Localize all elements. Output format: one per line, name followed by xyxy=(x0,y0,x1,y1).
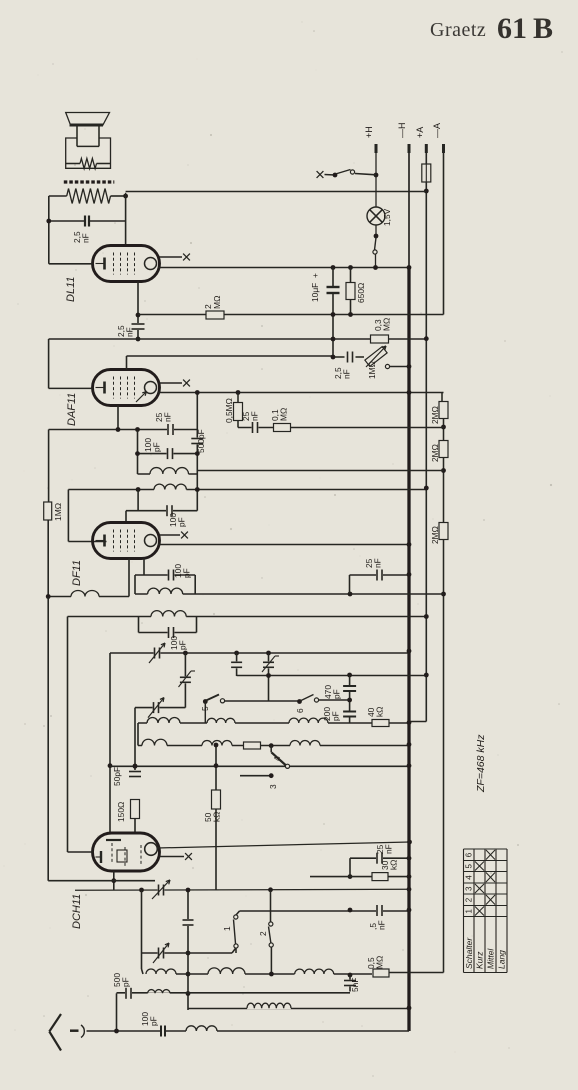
svg-text:DF11: DF11 xyxy=(71,560,83,586)
svg-text:5: 5 xyxy=(200,706,210,711)
svg-text:10μF: 10μF xyxy=(310,283,320,302)
svg-text:MΩ: MΩ xyxy=(375,956,385,969)
svg-text:pF: pF xyxy=(332,689,342,699)
svg-text:+A: +A xyxy=(415,127,425,138)
svg-text:2MΩ: 2MΩ xyxy=(430,444,440,462)
svg-text:Schalter: Schalter xyxy=(464,937,474,969)
svg-text:5: 5 xyxy=(465,864,474,869)
svg-text:Mittel: Mittel xyxy=(486,948,496,969)
svg-text:nF: nF xyxy=(377,920,387,930)
svg-text:6: 6 xyxy=(295,708,305,713)
svg-text:1MΩ: 1MΩ xyxy=(367,361,377,379)
svg-text:3: 3 xyxy=(465,886,474,891)
svg-text:3: 3 xyxy=(268,784,278,789)
svg-text:1MΩ: 1MΩ xyxy=(53,503,63,521)
svg-text:nF: nF xyxy=(384,844,394,854)
svg-text:2: 2 xyxy=(258,931,268,936)
svg-text:DAF11: DAF11 xyxy=(66,393,78,426)
svg-text:ZF=468 kHz: ZF=468 kHz xyxy=(475,734,487,793)
svg-text:nF: nF xyxy=(163,412,173,422)
svg-text:650Ω: 650Ω xyxy=(356,283,366,303)
svg-text:pF: pF xyxy=(182,568,192,578)
svg-text:Kurz: Kurz xyxy=(475,951,485,969)
svg-text:1: 1 xyxy=(222,926,232,931)
svg-text:—H: —H xyxy=(397,123,407,139)
svg-text:pF: pF xyxy=(178,640,188,650)
svg-text:2: 2 xyxy=(465,897,474,902)
svg-text:Graetz: Graetz xyxy=(430,19,486,41)
svg-text:2MΩ: 2MΩ xyxy=(430,406,440,424)
svg-text:2MΩ: 2MΩ xyxy=(430,526,440,544)
svg-text:4: 4 xyxy=(272,756,282,761)
svg-text:DL11: DL11 xyxy=(65,277,77,302)
svg-text:150Ω: 150Ω xyxy=(116,802,126,822)
svg-text:—A: —A xyxy=(432,123,442,138)
svg-text:MΩ: MΩ xyxy=(212,296,222,309)
svg-text:+H: +H xyxy=(364,126,374,138)
svg-text:Lang: Lang xyxy=(497,950,507,969)
svg-text:nF: nF xyxy=(250,411,260,421)
svg-text:pF: pF xyxy=(121,977,131,987)
svg-text:pF: pF xyxy=(149,1016,159,1026)
svg-text:0,5MΩ: 0,5MΩ xyxy=(224,398,234,423)
svg-text:5nF: 5nF xyxy=(350,978,360,992)
svg-text:1: 1 xyxy=(465,909,474,914)
svg-text:DCH11: DCH11 xyxy=(71,894,83,929)
svg-text:nF: nF xyxy=(125,327,135,337)
svg-text:kΩ: kΩ xyxy=(375,707,385,717)
svg-text:kΩ: kΩ xyxy=(212,812,222,822)
svg-text:MΩ: MΩ xyxy=(382,318,392,331)
svg-text:nF: nF xyxy=(342,369,352,379)
svg-text:pF: pF xyxy=(152,442,162,452)
svg-text:50pF: 50pF xyxy=(112,767,122,786)
svg-text:500pF: 500pF xyxy=(196,429,206,453)
svg-text:nF: nF xyxy=(373,558,383,568)
svg-text:nF: nF xyxy=(81,233,91,243)
svg-text:pF: pF xyxy=(331,711,341,721)
svg-text:4: 4 xyxy=(465,875,474,880)
svg-text:1,5V: 1,5V xyxy=(382,208,392,226)
svg-text:61 B: 61 B xyxy=(497,12,553,45)
svg-text:pF: pF xyxy=(177,517,187,527)
svg-text:kΩ: kΩ xyxy=(389,860,399,870)
svg-text:+: + xyxy=(310,273,320,278)
svg-text:6: 6 xyxy=(465,852,474,857)
svg-text:MΩ: MΩ xyxy=(279,408,289,421)
